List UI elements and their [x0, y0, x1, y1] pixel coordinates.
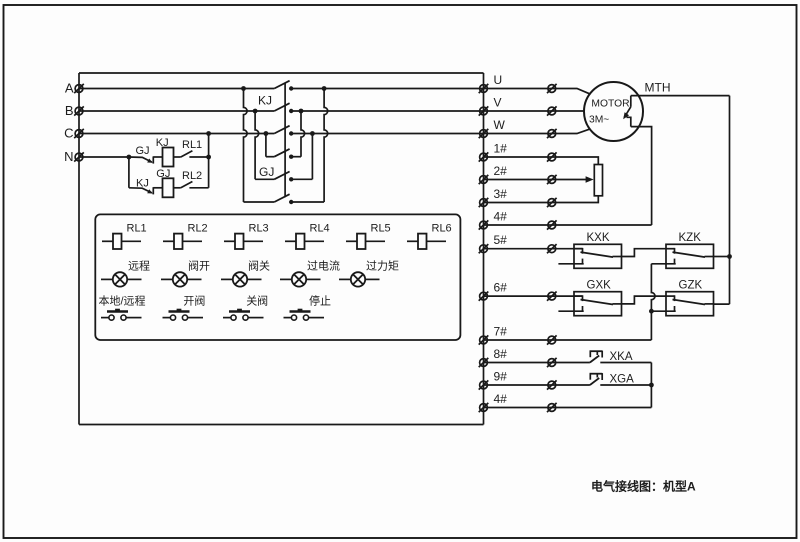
KZK common terminal — [666, 248, 675, 250]
svg-text:阀开: 阀开 — [188, 258, 210, 272]
svg-text:N: N — [64, 149, 73, 164]
limit switch KZK box — [666, 244, 714, 268]
KZK NC terminal stub — [651, 263, 675, 265]
svg-text:RL1: RL1 — [182, 139, 202, 151]
relay coil RL1 — [102, 240, 113, 242]
relay coil RL4 — [285, 240, 296, 242]
wire U to motor — [484, 89, 591, 95]
terminal 4# on enclosure — [480, 221, 488, 229]
fixed contact dot row 1 — [289, 86, 293, 90]
svg-text:RL3: RL3 — [249, 222, 269, 234]
svg-text:RL1: RL1 — [127, 222, 147, 234]
KXK contact blade — [581, 252, 614, 257]
terminal N (fuse symbol) — [75, 153, 83, 161]
svg-text:关阀: 关阀 — [246, 294, 268, 308]
svg-text:2#: 2# — [494, 164, 508, 178]
svg-text:KXK: KXK — [587, 232, 610, 244]
svg-text:XGA: XGA — [610, 374, 635, 386]
fixed contact dot row 4 — [289, 155, 293, 159]
fuse symbol on line 3# — [548, 199, 556, 207]
push button 关阀 — [223, 317, 231, 319]
wire GXK output to GZK — [622, 296, 667, 304]
svg-text:U: U — [494, 73, 503, 87]
svg-text:RL2: RL2 — [182, 170, 202, 182]
potentiometer R (feedback) — [594, 165, 602, 196]
junction branch1 joins riser — [206, 155, 211, 160]
wire coil to RL1 — [174, 156, 181, 158]
terminal 2# on enclosure — [480, 176, 488, 184]
wire W down to GJ row2 out — [311, 134, 313, 180]
GXK common terminal — [574, 295, 583, 297]
fuse symbol on line 2# — [548, 176, 556, 184]
wire riser 8#/9#/4# — [650, 363, 652, 408]
wire to KJ coil — [153, 156, 162, 158]
fuse symbol on line 1# — [548, 153, 556, 161]
svg-text:6#: 6# — [494, 281, 508, 295]
KXK NC terminal stub — [558, 263, 583, 265]
svg-text:电气接线图：机型A: 电气接线图：机型A — [591, 479, 696, 494]
wire phase A bus — [79, 88, 274, 90]
wire 7# — [484, 339, 652, 341]
terminal 9# on enclosure — [480, 381, 488, 389]
svg-text:C: C — [64, 126, 73, 141]
relay coil RL5 — [346, 240, 357, 242]
svg-text:本地/远程: 本地/远程 — [99, 294, 146, 308]
wire 4# bottom — [484, 407, 652, 409]
svg-text:W: W — [494, 118, 506, 132]
wire U down to GJ row3 out (hops B,C) — [324, 89, 328, 203]
fuse symbol on line 4# — [548, 221, 556, 229]
contact blade GJ3 — [274, 194, 289, 202]
wire right riser (MTH to KZK/GZK) — [729, 96, 731, 305]
wire A to U terminal — [291, 88, 484, 90]
wire B down to GJ row2 (hops C) — [255, 111, 259, 179]
wire A down to GJ row3 (hops B,C) — [244, 89, 248, 203]
svg-text:过力矩: 过力矩 — [366, 259, 399, 272]
NO contact RL1 — [181, 151, 193, 157]
KXK common terminal — [574, 248, 583, 250]
fuse symbol on line U — [548, 85, 556, 93]
push button 停止 — [284, 317, 292, 319]
svg-text:开阀: 开阀 — [183, 294, 205, 308]
wire 9# to XGA — [484, 384, 590, 386]
wire C down to GJ row1 — [265, 134, 267, 157]
svg-text:4#: 4# — [494, 209, 508, 223]
indicator lamp 过电流 — [280, 278, 292, 280]
wire 1# to potentiometer top — [484, 157, 599, 165]
fixed contact dot row 5 — [289, 177, 293, 181]
svg-text:RL5: RL5 — [371, 222, 391, 234]
fuse symbol on line 7# — [548, 336, 556, 344]
contact blade KJ2 — [274, 103, 289, 111]
junction W line — [310, 131, 315, 136]
wire KXK output to KZK — [622, 249, 667, 257]
indicator lamp 阀关 — [221, 278, 233, 280]
svg-text:1#: 1# — [494, 141, 508, 155]
terminal 5# on enclosure — [480, 245, 488, 253]
junction A feeder — [241, 86, 246, 91]
terminal U on enclosure — [480, 85, 488, 93]
svg-text:KJ: KJ — [136, 177, 149, 189]
junction C feeder — [264, 131, 269, 136]
wire to GJ coil — [153, 187, 162, 189]
svg-text:8#: 8# — [494, 347, 508, 361]
svg-text:过电流: 过电流 — [307, 258, 340, 272]
contact blade KJ3 — [274, 126, 289, 134]
junction V line — [299, 109, 304, 114]
GXK NC terminal stub — [558, 310, 583, 312]
svg-text:KJ: KJ — [156, 137, 169, 149]
fuse symbol on line 8# — [548, 359, 556, 367]
control panel box — [95, 214, 460, 340]
junction N split — [126, 155, 131, 160]
svg-text:3#: 3# — [494, 187, 508, 201]
fuse symbol on line 5# — [548, 245, 556, 253]
junction riser on C — [206, 131, 211, 136]
relay coil RL2 — [163, 240, 174, 242]
indicator lamp 过力矩 — [339, 278, 351, 280]
wire C to W terminal — [291, 133, 484, 135]
wire 6# to GXK — [484, 295, 583, 297]
wire 2# to potentiometer wiper — [484, 179, 587, 181]
wire to GJ row2 pivot — [255, 178, 274, 180]
terminal 6# on enclosure — [480, 292, 488, 300]
GXK NO output wire — [613, 303, 622, 305]
limit switch KXK box — [574, 244, 622, 268]
svg-text:A: A — [65, 81, 74, 96]
wire to GJ row1 pivot — [266, 156, 274, 158]
limit switch GZK box — [666, 292, 714, 316]
svg-text:远程: 远程 — [128, 259, 150, 272]
wire 3# to potentiometer bottom — [484, 196, 599, 203]
svg-text:GJ: GJ — [136, 145, 150, 157]
svg-text:RL6: RL6 — [432, 222, 452, 234]
fuse symbol on line 6# — [548, 292, 556, 300]
wire N down to branch 2 — [128, 157, 130, 188]
wire phase B bus — [79, 110, 274, 112]
fixed contact dot row 6 — [289, 200, 293, 204]
motor M circle — [584, 82, 643, 141]
svg-text:MTH: MTH — [645, 81, 671, 95]
GZK NC terminal stub — [651, 310, 675, 312]
svg-text:3M~: 3M~ — [589, 114, 609, 125]
wire coil to RL2 — [174, 187, 181, 189]
wire phase C bus — [79, 133, 274, 135]
contactor KJ/GJ mechanical linkage — [284, 83, 286, 197]
fuse symbol on line 9# — [548, 381, 556, 389]
terminal B (fuse symbol) — [75, 107, 83, 115]
KXK NO output wire — [613, 256, 622, 258]
junction 9# — [649, 383, 654, 388]
svg-text:RL4: RL4 — [310, 222, 330, 234]
svg-text:RL2: RL2 — [188, 222, 208, 234]
NC contact GJ (branch1) — [129, 157, 152, 162]
torque switch XKA — [590, 356, 599, 363]
wire W to motor — [484, 129, 591, 134]
wire 8# to XKA — [484, 362, 590, 364]
wire riser into GZK — [713, 303, 730, 305]
terminal 3# on enclosure — [480, 199, 488, 207]
junction U line — [322, 86, 327, 91]
indicator lamp 远程 — [101, 278, 113, 280]
wire 4# to MTH return — [484, 224, 652, 226]
svg-text:4#: 4# — [494, 392, 508, 406]
svg-text:XKA: XKA — [610, 351, 633, 363]
svg-text:MOTOR: MOTOR — [591, 98, 629, 109]
wire 8# XKA to right riser — [600, 362, 651, 364]
wire KZK NC riser down to 7# (hops GXK-GZK link) — [651, 264, 655, 340]
svg-text:7#: 7# — [494, 324, 508, 338]
wire 9# XGA to right riser — [600, 384, 651, 386]
relay coil RL3 — [224, 240, 235, 242]
svg-text:B: B — [65, 103, 74, 118]
terminal 4# on enclosure — [480, 404, 488, 412]
terminal 7# on enclosure — [480, 336, 488, 344]
GZK NO output wire — [705, 303, 714, 305]
relay coil RL6 — [407, 240, 418, 242]
svg-text:9#: 9# — [494, 369, 508, 383]
KZK NO output wire — [705, 256, 714, 258]
terminal C (fuse symbol) — [75, 130, 83, 138]
fuse symbol on line V — [548, 107, 556, 115]
push button 本地/远程 — [101, 317, 109, 319]
wire branch riser to C — [208, 134, 210, 188]
wire B to V terminal — [291, 110, 484, 112]
wire MTH bottom to 4# — [631, 127, 652, 225]
wire GJ row2 output — [291, 178, 312, 180]
wire to GJ row3 pivot — [244, 201, 275, 203]
svg-text:KJ: KJ — [258, 94, 272, 108]
torque switch XGA — [590, 378, 599, 385]
coil GJ — [163, 178, 174, 197]
svg-text:停止: 停止 — [309, 294, 331, 308]
junction KZK output — [727, 254, 732, 259]
svg-text:GJ: GJ — [156, 168, 170, 180]
wire phase N — [79, 156, 129, 158]
wiper arrow — [586, 176, 594, 183]
wire V down to GJ row1 out (hops C) — [301, 111, 305, 157]
junction GZK NC stub — [649, 309, 654, 314]
wire MTH top to right riser — [631, 95, 730, 97]
push button 开阀 — [163, 317, 171, 319]
wire 5# to KXK — [484, 248, 583, 250]
fuse symbol on line 4# — [548, 404, 556, 412]
svg-text:5#: 5# — [494, 233, 508, 247]
NO contact RL2 — [181, 182, 193, 188]
terminal A (fuse symbol) — [75, 85, 83, 93]
wire GJ row3 output — [291, 201, 324, 203]
indicator lamp 阀开 — [161, 278, 173, 280]
fixed contact dot row 3 — [289, 131, 293, 135]
terminal 8# on enclosure — [480, 359, 488, 367]
wire GJ row1 output — [291, 156, 301, 158]
coil KJ — [163, 148, 174, 167]
svg-text:阀关: 阀关 — [248, 258, 270, 272]
limit switch GXK box — [574, 292, 622, 316]
main enclosure box — [79, 72, 484, 74]
wire V to motor — [484, 110, 585, 112]
thermal switch MTH — [630, 96, 632, 107]
NC contact KJ (branch2) — [129, 188, 152, 193]
terminal 1# on enclosure — [480, 153, 488, 161]
terminal V on enclosure — [480, 107, 488, 115]
junction B feeder — [253, 109, 258, 114]
terminal W on enclosure — [480, 130, 488, 138]
GZK common terminal — [666, 295, 675, 297]
svg-text:V: V — [494, 95, 502, 109]
contact blade GJ2 — [274, 172, 289, 180]
contact blade GJ1 — [274, 149, 289, 157]
wire KZK output to riser — [714, 256, 730, 258]
contact blade KJ1 — [274, 81, 289, 89]
fixed contact dot row 2 — [289, 109, 293, 113]
fuse symbol on line W — [548, 130, 556, 138]
GXK contact blade — [581, 300, 614, 305]
svg-text:GXK: GXK — [587, 280, 612, 292]
svg-text:GZK: GZK — [679, 280, 703, 292]
GZK contact blade — [673, 300, 706, 305]
svg-text:KZK: KZK — [679, 232, 702, 244]
svg-text:GJ: GJ — [259, 165, 274, 179]
KZK contact blade — [673, 252, 706, 257]
